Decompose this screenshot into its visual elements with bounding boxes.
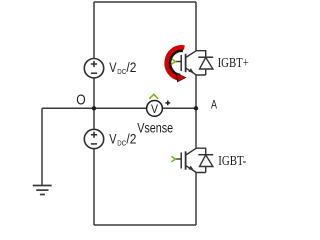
label VDC/2 (top)	[109, 60, 136, 76]
voltmeter Vsense	[147, 101, 163, 117]
svg-text:/2: /2	[126, 131, 136, 146]
node O junction dot	[92, 106, 96, 110]
label + (Vsense polarity)	[165, 101, 170, 106]
wire: right branch lower	[195, 173, 197, 226]
transistor Q1 IGBT+	[175, 51, 196, 75]
svg-text:V: V	[151, 102, 158, 116]
wire: Vsense to node A	[163, 107, 197, 109]
wire: bottom bus	[94, 224, 196, 226]
wire: node O to bottom source	[93, 108, 95, 129]
wire: middle bus O to Vsense	[42, 107, 147, 109]
green polarity caret above Vsense	[149, 94, 158, 98]
svg-text:/2: /2	[126, 60, 136, 75]
wire: left branch upper	[93, 2, 95, 58]
svg-text:DC: DC	[117, 67, 126, 76]
wire: left branch lower	[93, 149, 95, 225]
transistor Q2 IGBT-	[175, 148, 196, 172]
node A junction dot	[194, 106, 198, 110]
green gate caret (IGBT-)	[171, 156, 175, 161]
diode D1 (IGBT+ antiparallel)	[196, 51, 213, 75]
voltage source V2 (bottom VDC/2)	[84, 129, 103, 148]
label VDC/2 (bottom)	[109, 131, 136, 147]
svg-text:V: V	[109, 131, 116, 146]
svg-text:Vsense: Vsense	[137, 121, 173, 137]
svg-text:IGBT-: IGBT-	[218, 153, 246, 168]
svg-text:V: V	[109, 60, 116, 75]
svg-text:DC: DC	[117, 138, 126, 147]
wire: right branch upper	[195, 2, 197, 51]
diode D2 (IGBT- antiparallel)	[196, 148, 213, 172]
wire: right branch middle	[195, 75, 197, 148]
wire: ground stub	[41, 108, 43, 185]
voltage source V1 (top VDC/2)	[84, 58, 103, 77]
wire: left branch source to node O	[93, 78, 95, 108]
green gate caret (IGBT+)	[171, 59, 175, 64]
svg-text:O: O	[76, 92, 85, 109]
wire: top bus	[94, 1, 196, 3]
red rotation arrow	[167, 47, 187, 82]
ground	[33, 186, 52, 195]
svg-text:A: A	[211, 98, 217, 112]
svg-text:IGBT+: IGBT+	[218, 55, 249, 70]
